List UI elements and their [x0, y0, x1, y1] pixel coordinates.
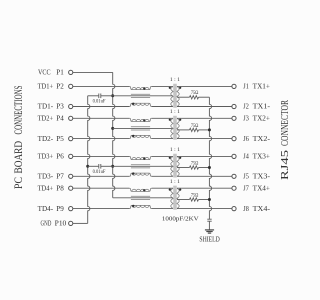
svg-text:P4: P4: [56, 116, 64, 123]
wire choke to transformer T4 top: [152, 187, 173, 189]
svg-text:TX1-: TX1-: [253, 104, 271, 111]
wire choke to transformer T4 bottom: [152, 208, 173, 210]
svg-text:P2: P2: [56, 84, 64, 91]
choke L4 phase dot top: [143, 189, 145, 191]
svg-text:VCC: VCC: [38, 70, 51, 77]
transformer T1 phase dot primary: [169, 87, 171, 89]
choke L3 top winding: [129, 156, 151, 159]
wire T4 primary center tap: [113, 197, 173, 199]
transformer T2 phase dot primary: [169, 119, 171, 121]
pin P6 terminal circle: [69, 154, 73, 158]
choke L1 phase dot top: [143, 87, 145, 89]
svg-text:TX2+: TX2+: [253, 116, 270, 123]
wire choke to transformer T1 bottom: [152, 106, 173, 108]
node VCC junction at channel 1 center tap: [111, 94, 114, 97]
wire T3 primary center tap: [113, 165, 173, 167]
wire TX4+ output: [177, 187, 232, 189]
svg-text:TD3+: TD3+: [38, 154, 54, 161]
choke L2 top winding: [129, 118, 151, 121]
svg-text:TD3-: TD3-: [38, 174, 54, 181]
wire resistor R3 to common bus: [199, 167, 210, 169]
choke L4 phase dot bottom: [132, 205, 134, 207]
svg-text:TX2-: TX2-: [253, 136, 271, 143]
svg-text:CONNECTIONS: CONNECTIONS: [13, 86, 25, 135]
choke L2 bottom winding: [129, 135, 151, 138]
transformer T1 secondary winding: [177, 86, 179, 106]
wire common termination bus (hops over signal wires): [209, 97, 211, 219]
svg-text:BOARD: BOARD: [13, 141, 25, 174]
pin J3 terminal circle: [232, 116, 236, 120]
wire choke to transformer T3 bottom: [152, 175, 173, 177]
transformer T3 phase dot secondary: [179, 157, 181, 159]
svg-text:75Ω: 75Ω: [191, 160, 199, 166]
wire GND P10 to bus: [73, 222, 88, 224]
resistor R1 75 ohm: [190, 96, 199, 99]
pin P10 terminal circle: [69, 221, 73, 225]
svg-text:1000pF/2KV: 1000pF/2KV: [162, 216, 199, 223]
wire TX3+ output: [177, 155, 232, 157]
transformer T4 phase dot primary: [169, 189, 171, 191]
transformer T1 phase dot secondary: [179, 87, 181, 89]
svg-text:J4: J4: [243, 154, 249, 161]
node GND junction at channel 3 capacitor: [86, 165, 89, 168]
wire choke to transformer T2 bottom: [152, 138, 173, 140]
svg-text:TD1+: TD1+: [38, 84, 54, 91]
svg-text:0.01uF: 0.01uF: [93, 169, 106, 175]
choke L4 top winding: [129, 188, 151, 191]
svg-text:CONNECTOR: CONNECTOR: [280, 100, 291, 146]
pin P7 terminal circle: [69, 174, 73, 178]
pin J5 terminal circle: [232, 174, 236, 178]
transformer T3 secondary winding: [177, 156, 179, 176]
wire TD1- input to choke: [73, 106, 130, 108]
svg-text:TX3+: TX3+: [253, 154, 270, 161]
pin J6 terminal circle: [232, 137, 236, 141]
transformer T2 core: [173, 116, 175, 140]
pin J7 terminal circle: [232, 186, 236, 190]
node bus junction resistor R4: [208, 198, 211, 201]
choke L1 bottom winding: [129, 103, 151, 106]
resistor R3 75 ohm: [190, 166, 199, 169]
svg-text:P3: P3: [56, 104, 64, 111]
svg-text:TX4-: TX4-: [253, 206, 271, 213]
pin J8 terminal circle: [232, 207, 236, 211]
svg-text:1 : 1: 1 : 1: [170, 179, 180, 185]
choke L1 core: [131, 93, 150, 95]
wire resistor R4 to common bus: [199, 199, 210, 201]
choke L2 phase dot top: [143, 119, 145, 121]
svg-text:P9: P9: [56, 206, 64, 213]
choke L4 core: [131, 195, 150, 197]
wire TD3+ input to choke: [73, 155, 130, 157]
svg-text:J8: J8: [243, 206, 249, 213]
transformer T3 core: [173, 154, 175, 178]
pin P4 terminal circle: [69, 116, 73, 120]
choke L1 phase dot bottom: [132, 103, 134, 105]
wire TD1+ input to choke: [73, 85, 130, 87]
svg-text:J6: J6: [243, 136, 249, 143]
svg-text:75Ω: 75Ω: [191, 192, 199, 198]
wire TX2- output: [177, 138, 232, 140]
transformer T4 secondary winding: [177, 188, 179, 208]
capacitor C1 leads: [88, 95, 99, 97]
svg-text:1 : 1: 1 : 1: [170, 109, 180, 115]
svg-text:TX1+: TX1+: [253, 84, 270, 91]
transformer T1 core: [173, 84, 175, 108]
pin P1 terminal circle: [69, 70, 73, 74]
svg-text:J7: J7: [243, 185, 249, 192]
wire TD2- input to choke: [73, 138, 130, 140]
wire GND bus vertical (hops over signal wires): [88, 96, 90, 224]
svg-text:RJ45: RJ45: [280, 150, 291, 180]
wire choke to transformer T2 top: [152, 117, 173, 119]
svg-text:P10: P10: [55, 221, 67, 228]
capacitor C1 plates: [98, 94, 100, 99]
wire TX1+ output: [177, 85, 232, 87]
transformer T2 phase dot secondary: [179, 119, 181, 121]
svg-text:TD1-: TD1-: [38, 104, 54, 111]
choke L3 bottom winding: [129, 173, 151, 176]
wire T2 primary center tap: [113, 127, 173, 129]
wire TD4- input to choke: [73, 208, 130, 210]
wire VCC bus vertical (hops over signal wires): [113, 72, 115, 197]
transformer T3 phase dot primary: [169, 157, 171, 159]
svg-text:J5: J5: [243, 174, 249, 181]
transformer T3 primary winding: [171, 156, 173, 176]
resistor R4 75 ohm: [190, 198, 199, 201]
pin J2 terminal circle: [232, 104, 236, 108]
transformer T4 core: [173, 186, 175, 210]
choke L2 phase dot bottom: [132, 135, 134, 137]
svg-text:1 : 1: 1 : 1: [170, 147, 180, 153]
svg-text:P1: P1: [56, 70, 64, 77]
wire T4 secondary center tap: [177, 199, 190, 201]
transformer T4 primary winding: [171, 188, 173, 208]
ground SHIELD symbol: [205, 229, 214, 231]
wire TX2+ output: [177, 117, 232, 119]
pin J1 terminal circle: [232, 84, 236, 88]
wire TD4+ input to choke: [73, 187, 130, 189]
choke L1 top winding: [129, 86, 151, 89]
capacitor C3 plates: [207, 218, 211, 220]
node bus junction resistor R2: [208, 128, 211, 131]
svg-text:J3: J3: [243, 116, 249, 123]
svg-text:TX4+: TX4+: [253, 185, 270, 192]
wire cap to shield ground: [208, 221, 210, 230]
choke L3 core: [131, 164, 150, 166]
wire resistor R1 to common bus: [199, 96, 210, 98]
wire TX4- output: [177, 208, 232, 210]
wire resistor R2 to common bus: [199, 129, 210, 131]
svg-text:75Ω: 75Ω: [191, 123, 199, 129]
pin P3 terminal circle: [69, 104, 73, 108]
wire choke to transformer T3 top: [152, 155, 173, 157]
svg-text:J1: J1: [243, 84, 249, 91]
choke L3 phase dot top: [143, 157, 145, 159]
transformer T1 primary winding: [171, 86, 173, 106]
svg-text:P7: P7: [56, 174, 64, 181]
wire TD3- input to choke: [73, 175, 130, 177]
wire TX3- output: [177, 175, 232, 177]
choke L4 bottom winding: [129, 205, 151, 208]
node VCC junction at channel 3 center tap: [111, 165, 114, 168]
svg-text:GND: GND: [41, 221, 52, 228]
wire VCC P1 to bus: [73, 71, 113, 73]
svg-text:0.01uF: 0.01uF: [93, 99, 106, 105]
svg-text:P8: P8: [56, 185, 64, 192]
svg-text:SHIELD: SHIELD: [199, 235, 219, 243]
svg-text:TD4+: TD4+: [38, 185, 54, 192]
pin P2 terminal circle: [69, 84, 73, 88]
resistor R2 75 ohm: [190, 128, 199, 131]
pin J4 terminal circle: [232, 154, 236, 158]
transformer T4 phase dot secondary: [179, 189, 181, 191]
svg-text:1 : 1: 1 : 1: [170, 77, 180, 83]
node VCC junction at channel 2 center tap: [111, 127, 114, 130]
svg-text:TD2+: TD2+: [38, 116, 54, 123]
pin P8 terminal circle: [69, 186, 73, 190]
wire TX1- output: [177, 106, 232, 108]
wire T1 secondary center tap: [177, 96, 190, 98]
pin P5 terminal circle: [69, 137, 73, 141]
svg-text:TD2-: TD2-: [38, 136, 54, 143]
svg-text:TD4-: TD4-: [38, 206, 54, 213]
wire T2 secondary center tap: [177, 129, 190, 131]
svg-text:P5: P5: [56, 136, 64, 143]
node bus junction resistor R3: [208, 166, 211, 169]
pin P9 terminal circle: [69, 207, 73, 211]
wire T1 primary center tap: [113, 95, 173, 97]
wire T3 secondary center tap: [177, 167, 190, 169]
capacitor C2 leads: [88, 165, 99, 167]
wire choke to transformer T1 top: [152, 85, 173, 87]
svg-text:J2: J2: [243, 104, 249, 111]
svg-text:P6: P6: [56, 154, 64, 161]
choke L3 phase dot bottom: [132, 172, 134, 174]
transformer T2 secondary winding: [177, 118, 179, 138]
wire TD2+ input to choke: [73, 117, 130, 119]
svg-text:TX3-: TX3-: [253, 174, 271, 181]
svg-text:75Ω: 75Ω: [191, 90, 199, 96]
choke L2 core: [131, 126, 150, 128]
transformer T2 primary winding: [171, 118, 173, 138]
svg-text:PC: PC: [13, 177, 25, 189]
capacitor C2 plates: [98, 164, 100, 169]
